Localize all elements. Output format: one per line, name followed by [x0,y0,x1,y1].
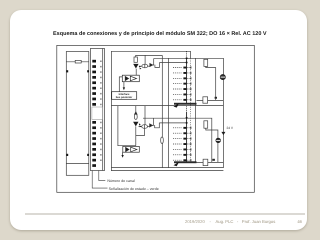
module boundary line [190,51,192,58]
schematic inner bottom line [111,167,223,169]
optocoupler U1 [122,75,139,82]
wire resistor stub g2 [135,106,137,113]
svg-text:Número de canal: Número de canal [107,179,135,183]
terminal strip inner line [102,49,104,171]
contact bus group1 [186,58,188,103]
LED V2 (status green) [133,122,141,127]
svg-text:bus posterior: bus posterior [116,96,133,99]
svg-text:46: 46 [297,219,302,224]
wire opto to interface [123,82,125,88]
load resistor RL1 [197,59,224,103]
rail load group2 [143,118,212,162]
opto2 riser from divider [118,106,136,146]
opto2 tap [122,145,124,148]
output terminal ticks group2 [190,127,192,162]
module front box [66,52,89,176]
load resistor RL2 [203,97,208,103]
contact column right edge [194,58,196,162]
junction blob group2 [212,159,215,161]
AC source G1 [220,75,225,80]
node bus rail [186,57,188,59]
diode Z2 [150,124,153,127]
load resistor RL3 [197,100,224,168]
opto input riser [119,77,122,92]
node bus rail2 [186,117,188,119]
wire diode2 to Zener2 [148,126,150,128]
wire LED2 to diode2 [139,126,142,128]
diode D2 [142,125,148,129]
bottom loop group2 [197,161,224,163]
wire load1 return [206,66,216,100]
footer divider [25,213,305,215]
schematic box [111,51,223,170]
node bus coil2-out [186,122,188,124]
terminal squares group A [92,60,96,106]
24V supply arrow [221,132,225,135]
wire LED2 chain down [135,126,137,145]
contact blobs group1 [183,67,186,101]
top link wire [136,55,163,57]
AC source G2 [216,138,221,143]
arrow opto2 down [121,155,123,158]
coil out to bus [160,62,187,64]
bus bar bottom group1 [174,103,197,105]
bottom loop group1 [197,99,224,101]
actuation arrow group1 [174,103,180,107]
node bus coil-out [186,62,188,64]
stub to diode D2 [144,106,146,125]
diode D1 [142,64,148,68]
channel number dots B [100,122,101,161]
relay coil K1 [155,63,160,68]
svg-text:Esquema de conexiones y de pri: Esquema de conexiones y de principio del… [53,30,267,37]
diode D2 feedback wire [136,128,145,135]
rail L group1 [154,58,223,100]
coil2 out to bus [159,122,186,124]
relay coil K2 [155,123,160,128]
relay contacts group1 rows [173,68,192,100]
callout: channel number [92,171,107,189]
optocoupler U2 [123,146,140,155]
module top compartment line [66,61,89,63]
fuse F1 [75,60,81,63]
relay contacts group2 rows [173,128,192,160]
resistor R1 [134,57,137,62]
wire load3 return [206,128,218,162]
module bottom compartment line [66,163,89,165]
contact bus dotted top2 [186,106,188,112]
outer frame [57,45,255,192]
contact bus dotted top [186,51,188,58]
terminal strip outline [90,49,104,171]
resistor R5 on supply line [161,137,164,143]
wire LED to opto [135,69,137,76]
wire diode to Zener [148,65,150,67]
junction blob group1 [215,97,217,99]
wire zener2 to load-line riser [152,118,155,125]
channel number dots A [100,61,101,106]
actuation arrow group2 [174,162,180,166]
supply line A [161,55,163,167]
output terminal ticks group1 [190,66,192,101]
bus bar bottom group2 [174,161,197,163]
wire LED to diode [139,65,142,67]
module screw dots [67,70,89,156]
supply line B [168,58,170,167]
arrow up g2 [135,112,138,115]
strip middle block [92,107,103,120]
interface box [112,92,137,100]
group divider [111,105,223,107]
svg-text:24 V: 24 V [227,126,234,130]
contact bus group2 [186,112,188,163]
contact blobs group2 [183,127,186,161]
svg-text:2019/2020 - Aug. PLC -: 2019/2020 - Aug. PLC - Prof. Juan Burgos [185,219,275,224]
stub to diode D1 [144,55,146,64]
arrow into interface [123,87,125,90]
load resistor RL4 [203,159,208,165]
LED V1 (status green) [133,64,141,70]
resistor R2 [134,114,137,119]
svg-text:Señalización de estado – verde: Señalización de estado – verde [109,187,159,191]
rail right group2 [222,100,224,168]
wire zener to rail riser [152,58,155,65]
terminal squares group B [92,121,96,167]
diode Z1 [150,63,153,66]
wire opto2 down [122,152,124,155]
